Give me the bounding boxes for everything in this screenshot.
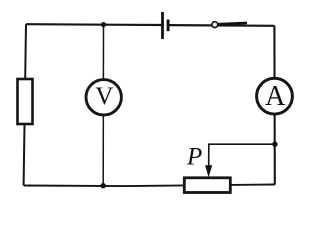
svg-text:P: P [186, 143, 202, 170]
svg-text:A: A [265, 81, 286, 112]
svg-text:V: V [95, 83, 113, 110]
